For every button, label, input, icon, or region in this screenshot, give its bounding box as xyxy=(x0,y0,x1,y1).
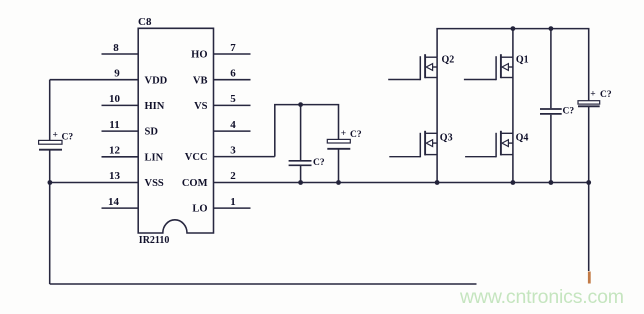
svg-text:9: 9 xyxy=(114,68,120,80)
svg-text:12: 12 xyxy=(109,145,121,157)
svg-text:11: 11 xyxy=(109,119,119,131)
svg-text:IR2110: IR2110 xyxy=(139,235,170,246)
svg-text:+: + xyxy=(590,90,595,100)
svg-text:VSS: VSS xyxy=(145,178,164,189)
svg-text:LO: LO xyxy=(192,204,207,215)
svg-text:7: 7 xyxy=(230,42,236,54)
svg-text:C?: C? xyxy=(313,158,325,168)
svg-text:6: 6 xyxy=(230,68,236,80)
svg-text:Q4: Q4 xyxy=(516,133,529,144)
svg-text:HIN: HIN xyxy=(145,101,165,112)
svg-text:C8: C8 xyxy=(138,16,152,28)
svg-text:VB: VB xyxy=(193,75,208,86)
svg-text:Q2: Q2 xyxy=(442,55,455,66)
svg-text:SD: SD xyxy=(145,127,159,138)
svg-text:Q3: Q3 xyxy=(440,133,453,144)
svg-text:VCC: VCC xyxy=(185,152,208,163)
svg-text:+: + xyxy=(341,129,346,139)
svg-text:14: 14 xyxy=(108,196,120,208)
svg-text:4: 4 xyxy=(230,119,236,131)
svg-text:13: 13 xyxy=(109,170,121,182)
svg-text:Q1: Q1 xyxy=(516,55,529,66)
svg-text:COM: COM xyxy=(182,178,208,189)
svg-text:HO: HO xyxy=(191,50,207,61)
svg-text:1: 1 xyxy=(230,196,236,208)
svg-text:C?: C? xyxy=(62,132,74,142)
svg-text:2: 2 xyxy=(230,170,236,182)
svg-text:www.cntronics.com: www.cntronics.com xyxy=(459,286,624,308)
svg-text:10: 10 xyxy=(109,93,121,105)
svg-text:VS: VS xyxy=(194,101,208,112)
svg-text:5: 5 xyxy=(230,93,236,105)
svg-text:C?: C? xyxy=(563,107,575,117)
svg-text:+: + xyxy=(53,131,58,141)
svg-text:8: 8 xyxy=(113,42,119,54)
svg-text:3: 3 xyxy=(230,144,236,156)
svg-text:VDD: VDD xyxy=(145,75,168,86)
svg-text:C?: C? xyxy=(600,90,612,100)
svg-text:LIN: LIN xyxy=(145,152,164,163)
svg-text:C?: C? xyxy=(350,130,362,140)
